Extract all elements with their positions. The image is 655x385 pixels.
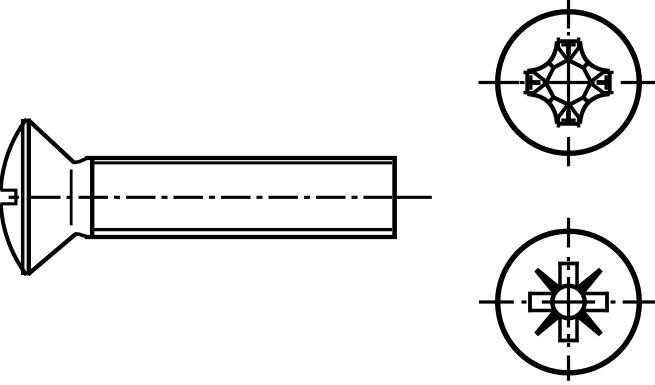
cone circle bbox=[552, 286, 584, 318]
head outline circle bbox=[498, 12, 640, 154]
thread root bottom bbox=[94, 228, 392, 231]
slot W bbox=[529, 292, 556, 313]
recess slot notch on dome bbox=[1, 190, 16, 204]
thread crest bottom bbox=[85, 235, 397, 239]
inner line tip to waist bbox=[569, 60, 584, 67]
screw side view bbox=[1, 119, 432, 276]
countersink cone bottom bbox=[28, 234, 75, 274]
corner tick left bbox=[557, 38, 560, 49]
slot S bbox=[558, 315, 579, 342]
slot center tab bbox=[566, 43, 571, 55]
slot N bbox=[558, 262, 579, 289]
identification wedge NW bbox=[532, 266, 561, 295]
head dome arc upper bbox=[1, 119, 27, 190]
thread runout top bbox=[73, 158, 88, 162]
recess quadrant W bbox=[524, 41, 569, 94]
recess quadrant N bbox=[557, 38, 610, 83]
identification wedge SW bbox=[532, 309, 561, 338]
waist stem bbox=[583, 62, 589, 68]
head edge line outer bbox=[27, 119, 31, 276]
head edge line inner bbox=[21, 119, 25, 275]
thread crest top bbox=[85, 156, 397, 160]
neck line bbox=[70, 170, 73, 226]
identification wedge SE bbox=[576, 309, 605, 338]
recess quadrant E bbox=[569, 71, 614, 124]
thread runout bottom bbox=[75, 234, 88, 237]
slot end cap bbox=[558, 262, 579, 266]
horizontal centerline bbox=[479, 81, 655, 84]
head dome arc lower bbox=[1, 204, 27, 275]
inner line waist to next tip bbox=[583, 68, 591, 83]
vertical centerline bbox=[567, 218, 570, 381]
thread root top bbox=[94, 161, 392, 164]
slot wall left bbox=[558, 262, 562, 289]
cross recess type Z bbox=[529, 262, 609, 342]
axis centerline bbox=[9, 196, 432, 199]
slot E bbox=[582, 292, 609, 313]
slot wall right bbox=[575, 262, 579, 289]
slot inner bar bbox=[561, 43, 575, 46]
outer wing curve bbox=[580, 41, 610, 71]
funnel wall right bbox=[569, 48, 579, 61]
horizontal centerline bbox=[479, 300, 655, 303]
shank end vertical bbox=[392, 156, 397, 239]
recess quadrant S bbox=[527, 83, 580, 128]
pozidriv recess view bbox=[479, 218, 655, 381]
cross recess type H bbox=[524, 38, 614, 128]
head outline circle bbox=[498, 231, 640, 373]
funnel wall left bbox=[558, 48, 568, 61]
countersink cone top bbox=[28, 120, 74, 163]
corner tick right bbox=[577, 38, 580, 49]
vertical centerline bbox=[567, 0, 570, 166]
phillips recess view bbox=[479, 0, 655, 166]
identification wedge NE bbox=[576, 266, 605, 295]
thread start vertical bbox=[90, 156, 94, 239]
slot end flat bbox=[557, 39, 580, 43]
